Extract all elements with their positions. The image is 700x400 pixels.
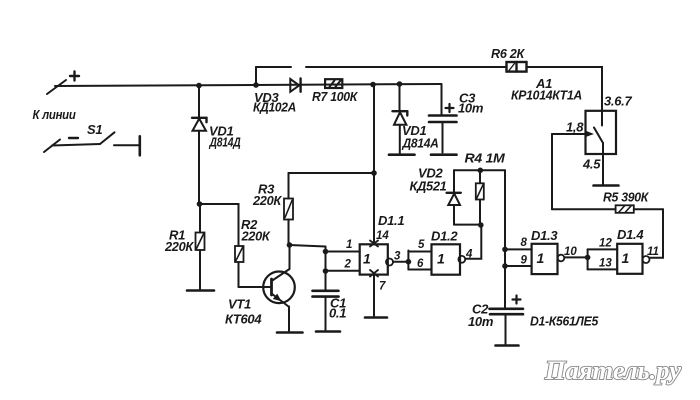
node junction R1/R2: [197, 201, 203, 207]
diode VD2: [447, 170, 461, 224]
wire main plus rail: [55, 84, 441, 86]
capacitor C3: [429, 84, 457, 153]
svg-text:220К: 220К: [252, 193, 282, 208]
svg-text:R5 390К: R5 390К: [603, 190, 649, 205]
svg-text:1,8: 1,8: [566, 120, 584, 135]
svg-text:R6 2К: R6 2К: [491, 46, 525, 61]
node junction pin9: [502, 263, 508, 269]
svg-text:1: 1: [437, 251, 445, 267]
plus terminal: [47, 72, 79, 95]
wire pin11: [650, 209, 664, 257]
ground under VT1: [277, 331, 303, 334]
zener VD1 D814A: [393, 84, 408, 154]
svg-text:10m: 10m: [458, 101, 484, 116]
svg-text:5: 5: [418, 239, 425, 251]
node junction pin8: [502, 247, 508, 253]
wire pin5: [408, 251, 431, 253]
svg-text:D1.4: D1.4: [617, 227, 644, 242]
wire stub up to top line: [255, 67, 257, 85]
node junction pin1: [323, 249, 329, 255]
ground under pin7: [365, 316, 387, 319]
wire pin1: [326, 251, 360, 253]
ground under C3: [431, 153, 457, 156]
gate D1.3: [532, 244, 565, 274]
resistor R6: [507, 62, 527, 72]
wire pin7 to ground: [373, 275, 375, 316]
svg-text:4.5: 4.5: [582, 157, 601, 172]
wire A1 ground lead: [602, 143, 604, 185]
svg-text:VT1: VT1: [228, 297, 251, 312]
wire pin6: [408, 269, 431, 271]
wire pin2: [326, 270, 360, 272]
svg-text:220К: 220К: [164, 239, 194, 254]
svg-text:3.6.7: 3.6.7: [604, 94, 632, 109]
svg-text:220К: 220К: [241, 229, 271, 244]
wire pin12: [588, 248, 618, 250]
gate D1.1: [360, 244, 393, 274]
svg-text:11: 11: [647, 246, 659, 258]
resistor R4: [476, 170, 484, 224]
pin7 X mark: [370, 270, 378, 277]
resistor R1: [196, 204, 205, 290]
svg-text:0.1: 0.1: [329, 306, 346, 321]
wire pin4: [465, 225, 481, 259]
svg-text:8: 8: [521, 237, 528, 249]
wire collector to gate inputs: [290, 245, 326, 247]
svg-text:6: 6: [417, 258, 424, 270]
svg-text:D1.2: D1.2: [431, 229, 458, 244]
node junction pin3: [406, 259, 412, 265]
svg-text:4: 4: [465, 249, 473, 261]
wire top line left part: [256, 66, 291, 68]
ground under A1: [594, 184, 619, 187]
gate D1.2: [432, 244, 466, 274]
wire R5 left: [552, 208, 616, 210]
capacitor C2: [490, 266, 524, 344]
diode VD3: [290, 78, 300, 91]
svg-text:7: 7: [379, 281, 386, 293]
wire base: [239, 286, 271, 288]
switch S1: [44, 132, 140, 155]
wire pin13: [588, 268, 618, 270]
wire top line right part: [528, 67, 602, 111]
wire R3 top to supply riser: [289, 172, 375, 174]
ground under C1: [316, 330, 340, 333]
wire riser to D1.3 inputs and C2: [504, 170, 506, 307]
svg-text:Д814А: Д814А: [402, 136, 439, 151]
wire pin3: [393, 261, 408, 263]
svg-text:1: 1: [363, 251, 371, 267]
node junction pin10: [585, 255, 591, 261]
node junction R3/riser: [371, 170, 377, 176]
wire R2 branch: [200, 204, 239, 246]
wire pin10: [564, 256, 587, 258]
svg-text:2: 2: [344, 259, 352, 271]
svg-text:R4 1М: R4 1М: [465, 151, 507, 166]
svg-text:13: 13: [599, 258, 612, 270]
node junction collector: [287, 242, 293, 248]
transistor VT1: [263, 245, 295, 331]
svg-text:1: 1: [346, 239, 352, 251]
svg-text:12: 12: [599, 238, 612, 250]
svg-text:Д814Д: Д814Д: [209, 135, 242, 150]
zener VD1 D814D: [192, 86, 207, 205]
svg-text:КД102А: КД102А: [253, 100, 296, 115]
svg-text:10m: 10m: [468, 314, 494, 329]
wire split bar 5/6: [407, 251, 409, 270]
wire split bar 12/13: [587, 249, 589, 269]
node junction pin2: [323, 268, 329, 274]
svg-text:К линии: К линии: [33, 107, 76, 122]
svg-text:D1-К561ЛЕ5: D1-К561ЛЕ5: [530, 314, 599, 329]
ground under VD1A: [389, 153, 415, 156]
pin14 X mark: [370, 241, 378, 247]
svg-text:1: 1: [537, 250, 545, 266]
svg-text:D1.1: D1.1: [378, 213, 404, 228]
capacitor C1: [313, 271, 339, 330]
svg-text:R7 100К: R7 100К: [312, 89, 358, 104]
resistor R2: [235, 246, 244, 287]
ground under R1: [187, 289, 214, 292]
node junction pin4/VD2: [478, 222, 484, 228]
wire pin8: [505, 248, 532, 250]
wire pin9: [505, 265, 532, 267]
resistor R3: [284, 173, 293, 245]
svg-text:Паятель.ру: Паятель.ру: [544, 356, 681, 385]
svg-text:S1: S1: [87, 122, 102, 137]
wire VD2/R4 top: [454, 169, 505, 171]
node junction supply riser: [370, 82, 376, 88]
wire top line mid part: [306, 66, 506, 68]
arrowhead A1 input: [585, 130, 595, 137]
node junction top branch: [253, 82, 259, 88]
svg-text:КТ604: КТ604: [225, 312, 262, 327]
svg-text:КД521: КД521: [410, 179, 447, 194]
ground under C2: [496, 344, 519, 347]
wire A1 input 1,8: [552, 133, 586, 135]
svg-text:10: 10: [564, 246, 577, 258]
resistor R5: [616, 205, 634, 213]
gate D1.4: [617, 244, 649, 274]
resistor R7: [325, 79, 342, 88]
node junction VD1A top: [397, 81, 403, 87]
node junction VD1 top: [196, 83, 202, 89]
svg-text:D1.3: D1.3: [531, 228, 558, 243]
svg-text:9: 9: [521, 255, 528, 267]
IC A1: [586, 111, 617, 154]
svg-text:1: 1: [622, 250, 630, 266]
svg-text:14: 14: [376, 230, 389, 242]
wire VD2/R4 bottom: [454, 224, 481, 226]
svg-text:3: 3: [394, 251, 401, 263]
wire supply riser to pin14: [373, 85, 375, 245]
wire A1 input riser: [551, 134, 553, 209]
svg-text:КР1014КТ1А: КР1014КТ1А: [511, 88, 582, 103]
node junction R4 top: [478, 168, 484, 174]
wire input split bar: [325, 247, 327, 272]
wire R5 right: [634, 208, 663, 210]
